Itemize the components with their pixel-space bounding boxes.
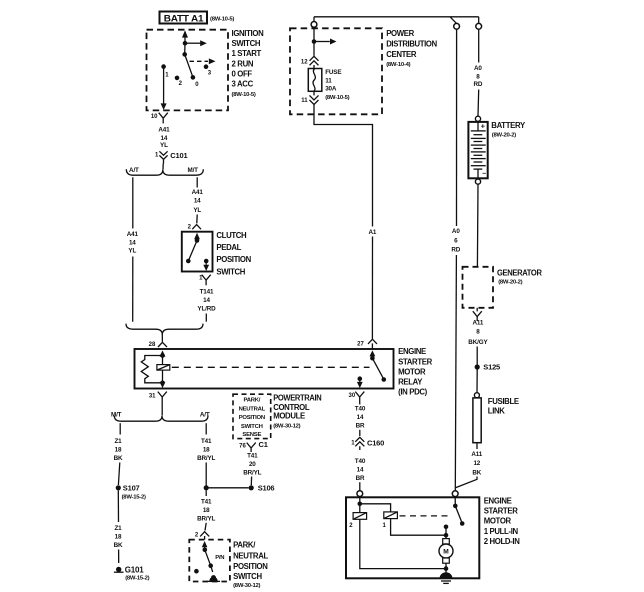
wire A1 from fuse to relay pin 27 <box>314 105 377 339</box>
svg-text:2 HOLD-IN: 2 HOLD-IN <box>484 537 521 546</box>
svg-text:14: 14 <box>129 239 136 246</box>
svg-text:14: 14 <box>357 414 364 421</box>
wire A11 12 BK <box>456 451 483 488</box>
svg-text:(8W-30-12): (8W-30-12) <box>233 583 260 589</box>
wire A0 6 RD long run <box>451 29 460 491</box>
ignition switch contact 1 <box>161 64 169 78</box>
svg-text:14: 14 <box>194 198 201 205</box>
svg-text:(8W-30-12): (8W-30-12) <box>273 423 300 429</box>
svg-text:Z1: Z1 <box>114 525 122 532</box>
svg-text:28: 28 <box>149 342 156 348</box>
relay output wire T40 14 BR <box>355 402 366 436</box>
battery <box>468 116 526 184</box>
relay resistor <box>141 356 162 383</box>
split brace A/T M/T <box>126 167 203 175</box>
wire pin 31 to split <box>161 402 163 416</box>
svg-text:POSITION: POSITION <box>233 562 268 571</box>
relay coil input arrow pin 28 <box>160 350 166 357</box>
svg-text:SWITCH: SWITCH <box>241 424 263 430</box>
svg-text:ENGINE: ENGINE <box>484 496 512 505</box>
svg-text:BATTERY: BATTERY <box>491 121 526 130</box>
svg-text:RELAY: RELAY <box>398 378 423 387</box>
ignition switch wiper arm <box>182 43 199 88</box>
svg-text:BATT A1: BATT A1 <box>164 12 204 23</box>
svg-text:20: 20 <box>249 461 256 468</box>
svg-text:SWITCH: SWITCH <box>232 39 261 48</box>
svg-text:NEUTRAL: NEUTRAL <box>233 552 268 561</box>
junction to splice S106 <box>204 484 275 493</box>
relay pin 30 output connector <box>349 392 365 402</box>
ignition switch start-position arrow <box>183 40 207 46</box>
svg-text:FUSE: FUSE <box>325 69 341 76</box>
svg-text:76: 76 <box>239 443 246 449</box>
starter ground <box>438 572 454 583</box>
svg-text:C1: C1 <box>259 440 268 449</box>
svg-text:14: 14 <box>357 467 364 474</box>
relay contact pin 30 <box>357 376 363 388</box>
svg-text:YL: YL <box>193 207 201 214</box>
svg-text:CLUTCH: CLUTCH <box>216 231 247 240</box>
wire stem into split <box>162 164 164 170</box>
svg-text:14: 14 <box>203 297 210 304</box>
svg-text:MOTOR: MOTOR <box>484 516 512 525</box>
relay coil <box>157 356 170 389</box>
svg-text:(8W-10-5): (8W-10-5) <box>210 16 234 22</box>
ignition switch output wire to pin 10 <box>161 67 167 110</box>
svg-text:27: 27 <box>357 342 364 348</box>
svg-text:SENSE: SENSE <box>242 432 261 438</box>
svg-text:A41: A41 <box>192 189 204 196</box>
wire A41 14 YL <box>158 127 170 149</box>
svg-text:BR: BR <box>356 422 365 429</box>
svg-text:1 START: 1 START <box>232 49 262 58</box>
fuse pin 12 connector <box>301 56 319 68</box>
solenoid coil 1 pull-in <box>383 512 446 535</box>
svg-text:YL: YL <box>160 142 168 149</box>
solenoid linkage dashed <box>400 515 451 517</box>
fuse pin 11 connector <box>301 91 318 104</box>
solenoid coil 2 hold-in <box>349 504 446 569</box>
PCM pin 76 connector C1 <box>239 440 268 452</box>
wire T41 18 BR/YL upper <box>197 423 215 488</box>
svg-text:S106: S106 <box>258 484 275 493</box>
svg-text:18: 18 <box>115 533 122 540</box>
svg-text:(8W-15-2): (8W-15-2) <box>125 576 149 582</box>
svg-text:BK/GY: BK/GY <box>468 339 488 346</box>
split brace M/T A/T lower <box>111 411 210 421</box>
starter eyelet right <box>452 491 458 497</box>
eyelet to A0 6 RD run <box>454 23 460 29</box>
svg-text:(IN PDC): (IN PDC) <box>398 387 428 396</box>
svg-text:LINK: LINK <box>488 406 506 415</box>
engine starter motor relay box <box>135 347 433 396</box>
svg-text:31: 31 <box>149 393 156 399</box>
svg-text:–: – <box>482 171 486 178</box>
svg-text:30: 30 <box>349 393 356 399</box>
clutch switch pin 1 connector <box>199 275 211 286</box>
svg-text:P/N: P/N <box>215 555 224 561</box>
svg-text:BR: BR <box>356 475 365 482</box>
eyelet to battery <box>476 23 482 29</box>
top feed wire from PDC to battery <box>314 17 479 24</box>
svg-text:11: 11 <box>325 77 332 84</box>
svg-text:(8W-10-5): (8W-10-5) <box>232 92 256 98</box>
node BATT A1 <box>160 12 235 24</box>
svg-text:RD: RD <box>451 247 460 254</box>
svg-text:A41: A41 <box>127 231 139 238</box>
svg-text:18: 18 <box>203 446 210 453</box>
svg-text:A/T: A/T <box>200 411 210 418</box>
relay pin 28 connector <box>149 342 167 348</box>
connector C160 pin 1 <box>351 437 384 450</box>
wire A/T leg A41 14 YL <box>127 177 139 321</box>
engine starter motor box <box>346 496 520 578</box>
svg-text:SWITCH: SWITCH <box>233 572 262 581</box>
wire Z1 18 BK upper <box>114 423 123 485</box>
svg-text:PEDAL: PEDAL <box>216 243 241 252</box>
wire T40 14 BR to starter <box>355 458 366 490</box>
clutch pedal position switch pin 2 <box>188 225 201 231</box>
svg-text:T41: T41 <box>247 453 258 460</box>
ignition switch contact 2 <box>175 76 183 87</box>
pin 10 connector <box>151 113 168 124</box>
park/neutral position switch <box>189 540 268 589</box>
starter switch contact <box>444 497 465 538</box>
svg-text:M/T: M/T <box>111 411 122 418</box>
splice S125 <box>475 363 500 372</box>
svg-text:STARTER: STARTER <box>484 507 519 516</box>
svg-text:18: 18 <box>203 507 210 514</box>
svg-text:0 OFF: 0 OFF <box>232 70 253 79</box>
svg-text:M/T: M/T <box>187 167 198 174</box>
svg-text:A41: A41 <box>158 127 170 134</box>
svg-text:PARK/: PARK/ <box>243 397 260 403</box>
ignition switch feed arrow from BATT A1 <box>182 30 188 43</box>
svg-text:POWER: POWER <box>386 29 414 38</box>
P/N switch pin 2 connector <box>195 532 209 540</box>
PDC feed node and branch arrow <box>312 27 337 56</box>
fusible link <box>473 370 519 450</box>
svg-text:G101: G101 <box>125 565 145 574</box>
svg-text:SWITCH: SWITCH <box>216 267 245 276</box>
fuse 11 30A <box>308 69 349 101</box>
P/N switch ground <box>207 575 220 581</box>
svg-text:(8W-20-2): (8W-20-2) <box>498 280 522 286</box>
wire T141 14 YL/RD <box>197 289 216 322</box>
svg-text:YL/RD: YL/RD <box>197 306 216 313</box>
svg-text:+: + <box>481 122 486 131</box>
relay pin 27 connector <box>357 339 377 349</box>
power distribution center box <box>290 28 438 114</box>
svg-text:BK: BK <box>114 455 123 462</box>
svg-text:A11: A11 <box>473 320 484 327</box>
ignition switch run-position dashed arrow <box>190 58 216 64</box>
svg-text:T40: T40 <box>355 458 366 465</box>
svg-text:1 PULL-IN: 1 PULL-IN <box>484 527 519 536</box>
svg-text:A/T: A/T <box>129 167 139 174</box>
relay pin 31 connector <box>149 392 167 402</box>
wire battery to generator <box>476 184 479 267</box>
svg-text:BR/YL: BR/YL <box>243 469 261 476</box>
svg-text:18: 18 <box>115 446 122 453</box>
svg-text:BK: BK <box>472 469 481 476</box>
svg-text:BR/YL: BR/YL <box>197 515 215 522</box>
svg-text:YL: YL <box>128 248 136 255</box>
svg-text:T41: T41 <box>201 498 212 505</box>
svg-text:ENGINE: ENGINE <box>398 347 426 356</box>
PDC top eyelet <box>311 22 317 28</box>
starter eyelet left <box>357 491 363 497</box>
svg-text:GENERATOR: GENERATOR <box>497 269 542 278</box>
svg-text:POWERTRAIN: POWERTRAIN <box>273 394 322 403</box>
wire T41 20 BR/YL <box>243 453 261 486</box>
svg-text:IGNITION: IGNITION <box>232 29 265 38</box>
svg-text:CONTROL: CONTROL <box>273 403 310 412</box>
relay contact arm <box>370 350 387 381</box>
svg-text:C101: C101 <box>170 151 187 160</box>
ignition switch contact 3 <box>204 64 212 76</box>
svg-text:30A: 30A <box>325 86 337 93</box>
svg-text:12: 12 <box>301 60 308 66</box>
ground G101 <box>114 565 150 581</box>
svg-text:A0: A0 <box>474 65 482 72</box>
svg-text:(8W-15-2): (8W-15-2) <box>122 495 146 501</box>
svg-text:POSITION: POSITION <box>239 415 265 421</box>
svg-text:14: 14 <box>161 135 168 142</box>
svg-text:11: 11 <box>301 98 308 104</box>
svg-text:BR/YL: BR/YL <box>197 455 215 462</box>
svg-text:MOTOR: MOTOR <box>398 368 426 377</box>
wire A11 8 BK/GY <box>468 320 488 365</box>
svg-text:T40: T40 <box>355 406 366 413</box>
svg-text:A1: A1 <box>369 229 377 236</box>
wire Z1 18 BK lower <box>114 490 123 563</box>
starter feed node <box>358 497 391 512</box>
generator <box>463 267 543 308</box>
wire T41 18 BR/YL lower <box>197 490 215 530</box>
svg-text:10: 10 <box>151 114 158 120</box>
svg-text:C160: C160 <box>367 438 384 447</box>
svg-text:PARK/: PARK/ <box>233 540 256 549</box>
svg-text:T41: T41 <box>201 438 212 445</box>
svg-text:DISTRIBUTION: DISTRIBUTION <box>386 40 437 49</box>
clutch pedal position switch <box>182 231 252 276</box>
generator output connector <box>473 308 482 321</box>
svg-text:2 RUN: 2 RUN <box>232 59 254 68</box>
svg-text:S125: S125 <box>483 363 500 372</box>
merge brace into relay pin 28 <box>126 324 203 342</box>
starter motor M <box>439 535 453 574</box>
svg-text:RD: RD <box>474 81 483 88</box>
connector C101 pin 1 <box>155 151 188 163</box>
svg-text:NEUTRAL: NEUTRAL <box>239 406 266 412</box>
svg-text:A11: A11 <box>471 451 482 458</box>
svg-text:3 ACC: 3 ACC <box>232 80 254 89</box>
svg-text:FUSIBLE: FUSIBLE <box>488 397 519 406</box>
ignition switch S <box>147 29 265 111</box>
svg-text:T141: T141 <box>200 289 214 296</box>
svg-text:POSITION: POSITION <box>216 255 251 264</box>
relay armature linkage dashed <box>172 366 370 368</box>
svg-text:MODULE: MODULE <box>273 412 305 421</box>
powertrain control module <box>233 394 322 439</box>
splice S107 <box>116 484 146 501</box>
svg-text:STARTER: STARTER <box>398 357 433 366</box>
svg-text:(8W-20-2): (8W-20-2) <box>492 132 516 138</box>
svg-text:12: 12 <box>473 460 480 467</box>
svg-text:BK: BK <box>114 542 123 549</box>
svg-text:(8W-10-4): (8W-10-4) <box>386 62 410 68</box>
wire M/T leg A41 14 YL <box>192 177 204 223</box>
svg-text:CENTER: CENTER <box>386 50 417 59</box>
svg-text:A0: A0 <box>452 228 460 235</box>
svg-text:S107: S107 <box>123 484 140 493</box>
svg-text:M: M <box>443 549 449 556</box>
svg-text:(8W-10-5): (8W-10-5) <box>325 95 349 101</box>
svg-text:Z1: Z1 <box>114 438 122 445</box>
wire A0 8 RD battery feed <box>474 29 483 116</box>
